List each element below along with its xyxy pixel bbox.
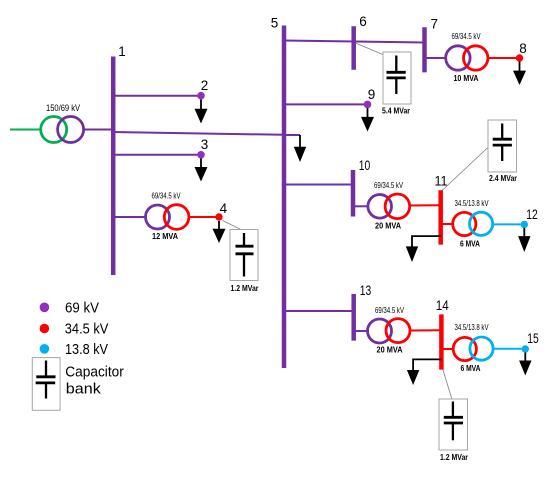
wire T1 to node 4 (189, 216, 216, 218)
wire bus 14 to capacitor C4 (443, 370, 452, 399)
svg-text:1.2 MVar: 1.2 MVar (440, 452, 469, 462)
wire bus 5 to bus 10 (284, 184, 353, 186)
node 4 (215, 201, 227, 221)
transformer T5 69/34.5 kV 20 MVA (368, 306, 411, 355)
load arrow bus 14 (407, 359, 442, 385)
load arrow on bus 5 junction (294, 135, 306, 162)
svg-text:7: 7 (430, 17, 438, 32)
svg-text:5: 5 (271, 16, 279, 31)
wire bus 5 to bus 7 (284, 41, 425, 43)
svg-text:9: 9 (368, 87, 376, 102)
svg-text:bank: bank (66, 382, 102, 398)
svg-text:1: 1 (118, 44, 126, 59)
svg-text:6 MVA: 6 MVA (461, 363, 481, 373)
transformer T3 69/34.5 kV 20 MVA (368, 181, 410, 231)
legend 34.5 kV (40, 322, 109, 338)
load arrow node 9 (361, 108, 374, 132)
wire bus 6 to capacitor C2 (356, 43, 384, 55)
legend capacitor bank symbol (32, 358, 124, 411)
svg-text:1.2 MVar: 1.2 MVar (231, 283, 260, 293)
svg-text:2: 2 (201, 78, 209, 93)
svg-text:14: 14 (436, 298, 449, 313)
wire bus 5 to bus 13 (284, 310, 354, 312)
wire node 4 to capacitor C1 (223, 221, 245, 232)
wire T2 to node 8 (488, 57, 516, 59)
wire bus 13 to transformer T5 (354, 330, 368, 332)
wire bus 1 to node 2 (113, 95, 198, 97)
wire source input (10, 129, 41, 131)
bus 5 (271, 16, 284, 369)
node 15 (522, 331, 539, 353)
svg-text:15: 15 (527, 331, 539, 346)
node 12 (521, 207, 538, 228)
transformer T6 34.5/13.8 kV 6 MVA (441, 323, 493, 373)
svg-text:34.5 kV: 34.5 kV (65, 322, 109, 338)
bus 11 (435, 173, 448, 244)
capacitor C2 5.4 MVar (382, 52, 411, 116)
svg-text:4: 4 (220, 201, 228, 216)
svg-text:5.4 MVar: 5.4 MVar (382, 106, 411, 116)
wire bus 11 to capacitor C3 (442, 147, 488, 191)
svg-text:Capacitor: Capacitor (65, 365, 124, 381)
load arrow node 3 (195, 159, 208, 182)
wire T3 to bus 11 (410, 204, 440, 206)
wire bus 5 to node 9 (284, 103, 364, 105)
load arrow node 4 (213, 221, 226, 243)
svg-text:12 MVA: 12 MVA (152, 231, 178, 241)
wire bus 5 junction stub (284, 134, 300, 136)
svg-text:2.4 MVar: 2.4 MVar (489, 173, 518, 183)
legend 13.8 kV (40, 342, 109, 358)
svg-text:12: 12 (526, 207, 538, 222)
node 8 (516, 41, 527, 62)
bus 13 (354, 283, 372, 341)
wire T4 to node 12 (493, 223, 521, 225)
svg-text:150/69 kV: 150/69 kV (46, 103, 80, 113)
wire bus 1 to bus 5 (113, 132, 284, 135)
node 9 (364, 87, 376, 108)
svg-text:10 MVA: 10 MVA (454, 73, 479, 83)
svg-text:69/34.5 kV: 69/34.5 kV (375, 306, 405, 315)
wire bus 10 to transformer T3 (353, 205, 368, 207)
wire bus 7 to transformer T2 (425, 57, 447, 59)
svg-text:69/34.5 kV: 69/34.5 kV (374, 181, 404, 190)
svg-text:10: 10 (359, 158, 371, 173)
svg-text:34.5/13.8 kV: 34.5/13.8 kV (455, 199, 490, 208)
node 3 (197, 137, 208, 159)
bus 1 (113, 44, 126, 275)
svg-text:13.8 kV: 13.8 kV (65, 342, 108, 358)
capacitor C1 1.2 MVar (230, 230, 259, 294)
svg-text:6: 6 (359, 14, 367, 29)
transformer T1 69/34.5 kV 12 MVA (146, 192, 189, 242)
node 2 (197, 78, 208, 99)
svg-text:3: 3 (201, 137, 209, 152)
legend 69 kV (40, 301, 100, 317)
capacitor C4 1.2 MVar (439, 399, 469, 462)
svg-text:20 MVA: 20 MVA (375, 221, 401, 231)
svg-text:34.5/13.8 kV: 34.5/13.8 kV (455, 323, 490, 332)
wire bus 1 to node 3 (113, 154, 198, 156)
bus 7 (425, 17, 438, 73)
transformer T4 34.5/13.8 kV 6 MVA (441, 199, 493, 249)
svg-text:13: 13 (360, 283, 372, 298)
load arrow node 12 (518, 228, 530, 252)
load arrow node 15 (519, 353, 531, 376)
svg-text:8: 8 (519, 41, 527, 56)
svg-text:69/34.5 kV: 69/34.5 kV (452, 32, 482, 41)
capacitor C3 2.4 MVar (488, 120, 518, 183)
bus 10 (353, 158, 370, 217)
svg-text:69/34.5 kV: 69/34.5 kV (152, 192, 182, 201)
bus 6 (354, 14, 367, 70)
wire T5 to bus 14 (410, 329, 440, 331)
load arrow bus 11 (406, 236, 441, 262)
wire bus 1 to transformer T1 (113, 216, 146, 218)
load arrow node 8 (513, 62, 526, 86)
transformer T0 150/69 kV (41, 103, 84, 143)
wire T0 to bus 1 (84, 129, 112, 131)
bus 14 (436, 298, 449, 370)
load arrow node 2 (195, 100, 208, 124)
wire T6 to node 15 (493, 348, 522, 350)
svg-text:69 kV: 69 kV (65, 301, 99, 317)
svg-text:20 MVA: 20 MVA (377, 345, 403, 355)
svg-text:11: 11 (435, 173, 448, 188)
svg-text:6 MVA: 6 MVA (460, 239, 480, 249)
transformer T2 69/34.5 kV 10 MVA (446, 32, 488, 83)
